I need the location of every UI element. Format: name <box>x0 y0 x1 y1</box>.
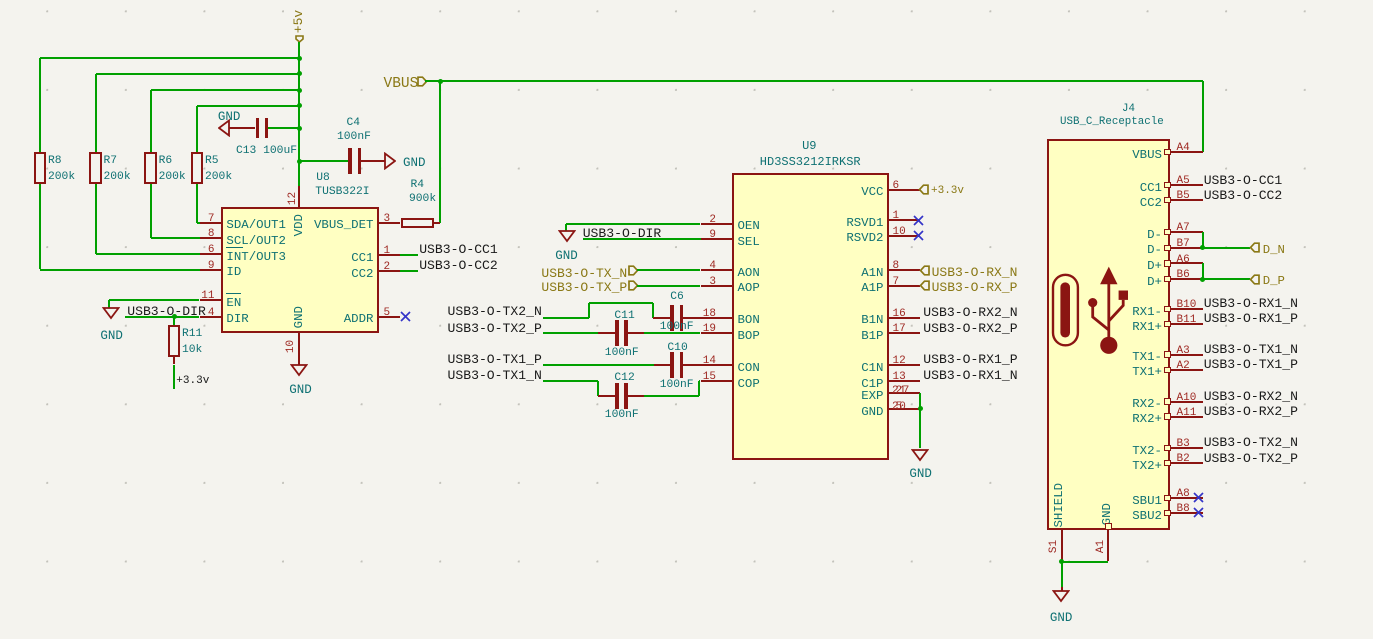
wire TX2_N over <box>589 302 652 304</box>
wire CC2 stub <box>400 270 418 272</box>
capacitor C4 <box>348 148 351 174</box>
pin number 9 <box>208 261 215 272</box>
wire TX1_P <box>543 364 654 366</box>
pin B10 RX1- <box>1164 306 1171 312</box>
wire +5v to R8 <box>40 57 299 59</box>
pin name INT/OUT3 <box>226 251 286 263</box>
pin number 12 <box>288 190 299 207</box>
ground below U8 <box>290 364 308 377</box>
pin name OEN <box>738 220 760 232</box>
global label D_N shape <box>1249 242 1260 253</box>
pin number 6 <box>893 181 900 192</box>
label USB3-O-RX2_P (U9) <box>923 322 1017 335</box>
capacitor C6 <box>670 305 673 331</box>
pin GND <box>889 408 920 410</box>
wire DIR to R11 <box>173 317 175 326</box>
pin name BOP <box>738 330 760 342</box>
pin number 11 <box>201 291 214 302</box>
wire C13 to GND <box>229 127 256 129</box>
pin name CC2 <box>1140 197 1162 209</box>
label USB3-O-RX2_P (J4) <box>1204 405 1298 418</box>
pin number A4 <box>1177 143 1190 154</box>
pin B1P <box>889 332 920 334</box>
pin RSVD1 <box>889 219 920 221</box>
wire to GND (J4) <box>1061 562 1063 587</box>
pin number 10 <box>893 227 906 238</box>
label USB3-O-RX1_N (J4) <box>1204 297 1298 310</box>
pin 7 SDA/OUT1 <box>200 222 222 224</box>
label GND (C4) <box>403 157 426 170</box>
global label VBUS <box>384 77 419 92</box>
pin number B5 <box>1177 191 1190 202</box>
pin number 8 <box>208 229 215 240</box>
junction <box>1059 559 1064 564</box>
pin number 13 <box>893 372 906 383</box>
pin number A7 <box>1177 223 1190 234</box>
pin 9 ID <box>200 269 222 271</box>
resistor R4 body <box>401 218 434 229</box>
pin number B10 <box>1177 300 1197 311</box>
label USB3-O-RX2_N (U9) <box>923 306 1017 319</box>
pin name CC2 <box>351 268 373 280</box>
USB-C connector icon <box>1048 262 1133 354</box>
global label +3.3v <box>931 186 964 197</box>
pin number 10 <box>286 338 297 355</box>
label USB3-O-RX2_N (J4) <box>1204 390 1298 403</box>
value C4 100nF <box>337 132 371 143</box>
pin name D+ <box>1147 276 1162 288</box>
pin name AOP <box>738 282 760 294</box>
pin number B11 <box>1177 315 1197 326</box>
pin number B8 <box>1177 504 1190 515</box>
wire R4 to VBUS <box>434 222 440 224</box>
pin number 17 <box>893 324 906 335</box>
label USB3-O-TX1_P (U9) <box>448 353 542 366</box>
pin A7 D- <box>1164 229 1171 235</box>
pin name B1N <box>861 314 883 326</box>
wire shield tie <box>1062 561 1108 563</box>
pin name COP <box>738 378 760 390</box>
pin name RX2+ <box>1132 413 1162 425</box>
label USB3-O-CC1 (U8) <box>419 243 498 256</box>
pin name EN <box>226 297 241 309</box>
resistor R6 <box>144 152 156 183</box>
pin number 1 <box>893 211 900 222</box>
power symbol +5v <box>295 35 304 43</box>
no-connect RSVD1 <box>913 215 924 226</box>
wire R11 to +3.3v <box>173 365 175 390</box>
value C11 100nF <box>605 348 639 359</box>
junction <box>438 79 443 84</box>
label USB3-O-CC2 (U8) <box>419 259 498 272</box>
pin B6 D+ <box>1164 276 1171 282</box>
wire DIR <box>125 316 199 318</box>
ground below U9 <box>911 449 929 462</box>
capacitor C11 <box>615 320 618 346</box>
wire EN to GND <box>109 299 199 301</box>
pin name DIR <box>226 313 248 325</box>
pin 19 BOP <box>701 332 732 334</box>
wire SEL <box>583 238 701 240</box>
pin number 8 <box>893 261 900 272</box>
pin number 7 <box>208 214 215 225</box>
wire R7 to pin6 <box>95 184 97 254</box>
pin 5 ADDR <box>379 316 401 318</box>
value TUSB322I <box>315 187 369 198</box>
value USB_C_Receptacle <box>1060 117 1164 128</box>
pin number 3 <box>709 277 716 288</box>
label GND (C13) <box>218 111 241 124</box>
wire to D_P <box>1203 278 1251 280</box>
pin number B7 <box>1177 239 1190 250</box>
pin number 6 <box>208 245 215 256</box>
wire +5v to R7 <box>96 73 300 75</box>
pin number 15 <box>703 372 716 383</box>
pin number 14 <box>703 356 716 367</box>
pin A10 RX2- <box>1164 398 1171 404</box>
wire C13 to rail <box>268 127 299 129</box>
wire +5v to R6 <box>151 89 299 91</box>
wire C4 to GND <box>361 160 386 162</box>
wire TX1_N down <box>597 381 599 396</box>
pin name GND (U8) <box>293 304 305 330</box>
resistor R7 <box>89 152 101 183</box>
pin name SDA/OUT1 <box>226 219 286 231</box>
capacitor C10 <box>670 352 673 378</box>
pin name GND (J4) <box>1101 501 1113 527</box>
pin A1P <box>889 285 920 287</box>
pin name RSVD2 <box>846 232 883 244</box>
junction <box>172 314 177 319</box>
label USB3-O-TX1_N (U9) <box>448 369 542 382</box>
pin number A3 <box>1177 346 1190 357</box>
wire R6 top <box>150 90 152 152</box>
global label USB3-O-TX_N shape <box>628 265 639 276</box>
no-connect ADDR <box>400 311 411 322</box>
junction <box>297 159 302 164</box>
global label +3.3v shape <box>918 184 929 195</box>
junction <box>297 88 302 93</box>
label +3.3v (R11) <box>176 376 209 387</box>
label USB3-O-TX1_P (J4) <box>1204 358 1298 371</box>
pin 8 SCL/OUT2 <box>200 237 222 239</box>
label USB3-O-TX2_P (J4) <box>1204 452 1298 465</box>
pin 18 BON <box>701 317 732 319</box>
pin name D- <box>1147 244 1162 256</box>
pin name TX2- <box>1132 445 1162 457</box>
ground at C13 <box>218 119 231 137</box>
pin 3 VBUS_DET <box>379 222 401 224</box>
label GND (U9) <box>909 468 932 481</box>
no-connect SBU2 <box>1193 507 1204 518</box>
pin A5 CC1 <box>1164 182 1171 188</box>
wire TX1_N b <box>644 395 699 397</box>
pin name VBUS <box>1132 149 1162 161</box>
pin number 19 <box>703 324 716 335</box>
pin number 4 <box>709 261 716 272</box>
global label USB3-O-RX_P <box>932 281 1018 294</box>
pin name RX2- <box>1132 398 1162 410</box>
global label D_P shape <box>1249 274 1260 285</box>
ref C10 <box>667 343 687 354</box>
pin A6 D+ <box>1164 260 1171 266</box>
pin C1N <box>889 364 920 366</box>
junction <box>297 126 302 131</box>
wire +5v rail vertical <box>298 42 300 187</box>
pin name GND <box>861 406 883 418</box>
pin number A1 <box>1096 538 1107 555</box>
pin A4 VBUS <box>1164 149 1171 155</box>
pin name ADDR <box>344 313 374 325</box>
global label USB3-O-RX_N <box>932 266 1018 279</box>
ref C11 <box>614 311 634 322</box>
junction <box>1200 277 1205 282</box>
value R4 900k <box>409 194 436 205</box>
wire R7 top <box>95 74 97 153</box>
pin number B6 <box>1177 270 1190 281</box>
label USB3-O-DIR (U9) <box>583 227 662 240</box>
label GND (EN) <box>100 330 123 343</box>
label USB3-O-RX1_P (J4) <box>1204 312 1298 325</box>
resistor R5 <box>191 152 203 183</box>
global label USB3-O-RX_P shape <box>919 280 930 291</box>
pin 10 GND <box>298 333 300 365</box>
pin name AON <box>738 267 760 279</box>
pin B3 TX2- <box>1164 445 1171 451</box>
pin name D- <box>1147 229 1162 241</box>
global label VBUS shape <box>417 76 428 87</box>
pin S1 SHIELD <box>1061 530 1063 562</box>
pin 15 COP <box>701 380 732 382</box>
pin number 16 <box>893 309 906 320</box>
global label USB3-O-RX_N shape <box>919 265 930 276</box>
label USB3-O-TX2_N (J4) <box>1204 436 1298 449</box>
label GND (U8 bottom) <box>289 384 312 397</box>
junction <box>1200 245 1205 250</box>
pin name VBUS_DET <box>314 219 374 231</box>
pin 9 SEL <box>701 238 732 240</box>
label USB3-O-TX2_P (U9) <box>448 322 542 335</box>
wire TX2_N up <box>588 303 590 318</box>
pin name D+ <box>1147 260 1162 272</box>
resistor R11 <box>168 325 180 356</box>
junction <box>918 406 923 411</box>
pin name CC1 <box>1140 182 1162 194</box>
value C10 100nF <box>660 380 694 391</box>
pin name A1N <box>861 267 883 279</box>
pin number 2 <box>709 215 716 226</box>
wire TX2_P <box>543 332 598 334</box>
pin 11 EN <box>200 299 222 301</box>
pin number A6 <box>1177 255 1190 266</box>
pin name C1P <box>861 378 883 390</box>
pin numbers GND (overlapped) <box>892 402 903 413</box>
label USB3-O-CC2 (J4) <box>1204 189 1283 202</box>
pin name SBU1 <box>1132 495 1162 507</box>
global label D_N <box>1263 244 1285 256</box>
pin 14 CON <box>701 364 732 366</box>
pin name TX1+ <box>1132 366 1162 378</box>
pin name RX1- <box>1132 306 1162 318</box>
pin A8 SBU1 <box>1164 495 1171 501</box>
pin name SBU2 <box>1132 510 1162 522</box>
pin name EXP <box>861 390 883 402</box>
pin name BON <box>738 314 760 326</box>
global label D_P <box>1263 275 1285 287</box>
pin number A5 <box>1177 176 1190 187</box>
wire R8 top <box>39 58 41 152</box>
ref C4 <box>347 118 361 129</box>
pin name SHIELD <box>1053 481 1065 530</box>
wire +5v to R5 <box>197 105 299 107</box>
wire EXP-GND down <box>919 393 921 449</box>
pin number 1 <box>384 246 391 257</box>
resistor R8 <box>34 152 46 183</box>
pin 4 DIR <box>200 316 222 318</box>
pin A1 GND <box>1105 523 1112 530</box>
global label USB3-O-TX_N <box>541 267 627 280</box>
wire TX2_N down <box>652 303 654 318</box>
capacitor C13 <box>256 118 259 138</box>
pin number 7 <box>893 277 900 288</box>
pin name RX1+ <box>1132 321 1162 333</box>
pin number 9 <box>709 230 716 241</box>
pin number A8 <box>1177 489 1190 500</box>
label USB3-O-DIR (U8) <box>127 305 206 318</box>
overbar EN <box>226 293 241 295</box>
pin number B2 <box>1177 454 1190 465</box>
pin name TX1- <box>1132 351 1162 363</box>
global label USB3-O-TX_P shape <box>628 280 639 291</box>
wire to D_N <box>1203 247 1251 249</box>
op-amp U8 body <box>221 207 379 333</box>
wire AOP <box>637 285 701 287</box>
wire R8 to pin9 <box>39 184 41 270</box>
ref C12 <box>614 373 634 384</box>
pin EXP <box>889 392 920 394</box>
wire CC1 stub <box>400 254 418 256</box>
pin A1N <box>889 269 920 271</box>
label USB3-O-CC1 (J4) <box>1204 174 1283 187</box>
label USB3-O-TX2_N (U9) <box>448 305 542 318</box>
pin A11 RX2+ <box>1164 413 1171 419</box>
wire TX1_N a <box>543 380 598 382</box>
pin name VDD <box>293 212 305 238</box>
pin name C1N <box>861 362 883 374</box>
pin 6 INT/OUT3 <box>200 253 222 255</box>
pin B11 RX1+ <box>1164 321 1171 327</box>
junction <box>297 56 302 61</box>
pin RSVD2 <box>889 235 920 237</box>
ground below J4 <box>1052 590 1070 603</box>
pin 2 OEN <box>701 223 732 225</box>
pin C1P <box>889 380 920 382</box>
pin B1N <box>889 317 920 319</box>
label USB3-O-RX1_P (U9) <box>923 353 1017 366</box>
no-connect RSVD2 <box>913 230 924 241</box>
pin number A2 <box>1177 361 1190 372</box>
no-connect SBU1 <box>1193 492 1204 503</box>
wire R5 to pin7 <box>196 184 198 223</box>
wire VBUS horizontal <box>425 80 1202 82</box>
pin name VCC <box>861 186 883 198</box>
pin numbers EXP (overlapped) <box>892 386 906 397</box>
ref C6 <box>670 292 684 303</box>
pin B5 CC2 <box>1164 197 1171 203</box>
pin name CC1 <box>351 252 373 264</box>
global label USB3-O-TX_P <box>541 281 627 294</box>
wire R6 to pin8 <box>150 184 152 239</box>
pin number 5 <box>384 308 391 319</box>
label GND (OEN) <box>555 250 578 263</box>
pin 3 AOP <box>701 285 732 287</box>
pin number 18 <box>703 309 716 320</box>
value HD3SS3212IRKSR <box>760 156 861 168</box>
pin number A10 <box>1177 393 1197 404</box>
label USB3-O-TX1_N (J4) <box>1204 343 1298 356</box>
pin A2 TX1+ <box>1164 367 1171 373</box>
pin name CON <box>738 362 760 374</box>
wire OEN <box>566 223 700 225</box>
ground at OEN <box>558 230 576 243</box>
value C13 100uF <box>236 146 297 157</box>
wire D+ tie <box>1202 263 1204 279</box>
pin number 2 <box>384 262 391 273</box>
ref J4 <box>1122 104 1135 115</box>
pin number S1 <box>1049 538 1060 555</box>
pin VCC <box>889 189 920 191</box>
junction <box>297 103 302 108</box>
capacitor C12 <box>615 383 618 409</box>
op-amp U9 body <box>732 173 890 460</box>
pin number B3 <box>1177 439 1190 450</box>
wire TX2_N a <box>543 317 590 319</box>
pin name A1P <box>861 282 883 294</box>
pin 12 VDD <box>298 186 300 207</box>
pin number 12 <box>893 356 906 367</box>
wire VBUS to R4 <box>439 81 441 223</box>
pin name TX2+ <box>1132 460 1162 472</box>
ground at EN <box>102 307 120 320</box>
pin B2 TX2+ <box>1164 460 1171 466</box>
value C6 100nF <box>660 322 694 333</box>
pin 1 CC1 <box>379 254 401 256</box>
wire rail to C4 <box>299 160 349 162</box>
pin A3 TX1- <box>1164 351 1171 357</box>
pin 2 CC2 <box>379 270 401 272</box>
value C12 100nF <box>605 410 639 421</box>
ref U8 <box>316 173 330 184</box>
pin B7 D- <box>1164 245 1171 251</box>
pin name ID <box>226 266 241 278</box>
pin name B1P <box>861 330 883 342</box>
pin number 3 <box>384 214 391 225</box>
pin name SEL <box>738 236 760 248</box>
ref U9 <box>802 140 816 152</box>
pin name RSVD1 <box>846 217 883 229</box>
wire D- tie <box>1202 232 1204 248</box>
pin number A11 <box>1177 408 1197 419</box>
pin name SCL/OUT2 <box>226 235 286 247</box>
ground at C4 <box>383 152 396 170</box>
wire AON <box>637 269 701 271</box>
label GND (J4 bottom) <box>1050 612 1073 625</box>
wire R5 top <box>196 106 198 153</box>
wire VBUS to J4 A4 <box>1202 81 1204 152</box>
ref R4 <box>411 180 425 191</box>
pin number 4 <box>208 308 215 319</box>
connector J4 body <box>1047 139 1170 530</box>
